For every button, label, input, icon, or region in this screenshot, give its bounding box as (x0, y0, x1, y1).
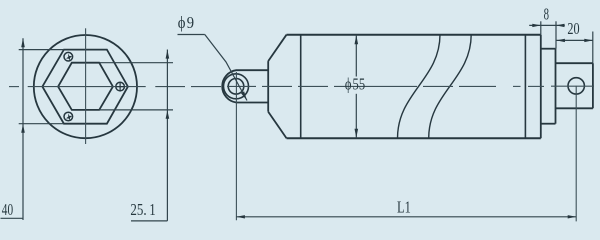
horizontal centerline dash segment 2 (through left view) (28, 86, 146, 88)
screw slot right (cross) (116, 82, 125, 91)
bottom chamfer (268, 112, 286, 139)
horizontal centerline dash segment 14 (through clevis hole) (551, 85, 594, 87)
svg-text:ϕ 55: ϕ 55 (345, 74, 365, 93)
arrow dim25.1 bottom (166, 111, 170, 119)
dim 20 line (556, 39, 593, 41)
horizontal centerline dash segment 8 (passes behind phi55 text) (334, 85, 417, 87)
top chamfer (268, 35, 286, 61)
left view vertical centerline (85, 28, 87, 144)
eyelet outer circle (224, 74, 249, 99)
svg-text:20: 20 (567, 19, 579, 38)
clevis hole circle (568, 78, 584, 94)
arrow dim20 right (points right) (584, 39, 593, 42)
arrow dim40 top (21, 38, 25, 47)
dim 25.1 extension top (inner flat extended) (99, 62, 173, 64)
dim 8 extension right (555, 21, 557, 48)
screw slot bottom-left (4-point star) (66, 113, 73, 121)
dim 25.1 extension bottom (99, 109, 173, 111)
break line right (S-curve) (429, 35, 472, 139)
dim 20 extension right (592, 32, 594, 64)
rear flange bottom (541, 123, 556, 125)
dim 25.1 text underline (131, 220, 167, 222)
arrow phi9 leader (241, 91, 247, 100)
body end line (540, 35, 542, 139)
clevis block right side (592, 63, 594, 108)
dim 40 text underline (1, 217, 24, 219)
svg-text:25. 1: 25. 1 (130, 200, 155, 219)
screw right (116, 82, 125, 91)
break line left (S-curve) (398, 35, 441, 139)
rear flange top (541, 48, 556, 50)
body bottom edge (287, 137, 541, 139)
arrow dim20 left (points left) (556, 39, 565, 42)
screw top-left (64, 52, 73, 61)
svg-text:8: 8 (544, 5, 549, 24)
horizontal centerline dash segment 5 (through eyelet) (227, 85, 256, 87)
arrow dim8 left (points right) (532, 24, 541, 27)
screw slot top-left (4-point star) (66, 53, 73, 61)
dim 40 extension bottom (19, 123, 64, 125)
dim 8 extension left (540, 21, 542, 34)
inner hexagon (58, 63, 113, 110)
clevis block bottom (556, 107, 593, 109)
leader phi9 underline (178, 34, 205, 36)
horizontal centerline dash segment 10 (423, 85, 453, 87)
outer hexagon (42, 50, 128, 124)
arrow L1 left (points left) (236, 215, 245, 218)
horizontal centerline dash segment 4 (191, 86, 221, 88)
clevis block top (556, 62, 593, 64)
front cap joint line (300, 35, 302, 139)
clevis hole vertical centerline / L1 right extension (575, 86, 577, 222)
svg-text:ϕ 9: ϕ 9 (178, 13, 194, 32)
dim L1 line (236, 216, 576, 218)
eyelet hole circle phi9 (228, 79, 244, 95)
horizontal centerline dash segment 12 (513, 85, 521, 87)
arrow phi55 bottom (355, 129, 359, 138)
arrow phi55 top (355, 35, 359, 44)
arrow dim25.1 top (166, 50, 170, 59)
body top edge (287, 34, 541, 36)
leader phi9 diagonal (205, 35, 247, 101)
horizontal centerline dash segment 11 (459, 85, 496, 87)
dim 8 line (529, 24, 565, 26)
svg-text:40: 40 (2, 200, 13, 219)
screw bottom-left (64, 112, 73, 121)
rear flange right side (555, 49, 557, 124)
horizontal centerline dash segment 7 (298, 85, 328, 87)
arrow dim8 right (points left) (556, 24, 565, 27)
arrow dim40 bottom (21, 124, 25, 133)
dim phi55 line lower (355, 94, 357, 138)
eyelet vertical centerline / L1 left extension (235, 72, 237, 220)
rod front face (267, 61, 269, 112)
dim 25.1 line (166, 50, 168, 221)
body circle phi55 end view (34, 35, 137, 138)
rod-end eyelet (stadium outline) (222, 70, 268, 102)
arrow L1 right (points right) (568, 215, 577, 218)
horizontal centerline dash segment 13 (528, 85, 544, 87)
horizontal centerline dash segment 1 (9, 86, 19, 88)
horizontal centerline dash segment 3 (155, 86, 185, 88)
svg-text:L1: L1 (397, 198, 411, 217)
rear joint line (524, 35, 526, 139)
dim 40 extension top (hexagon flat extended) (19, 49, 64, 51)
dim phi55 line upper (355, 35, 357, 77)
horizontal centerline dash segment 6 (262, 85, 292, 87)
dim 40 line (22, 38, 24, 220)
